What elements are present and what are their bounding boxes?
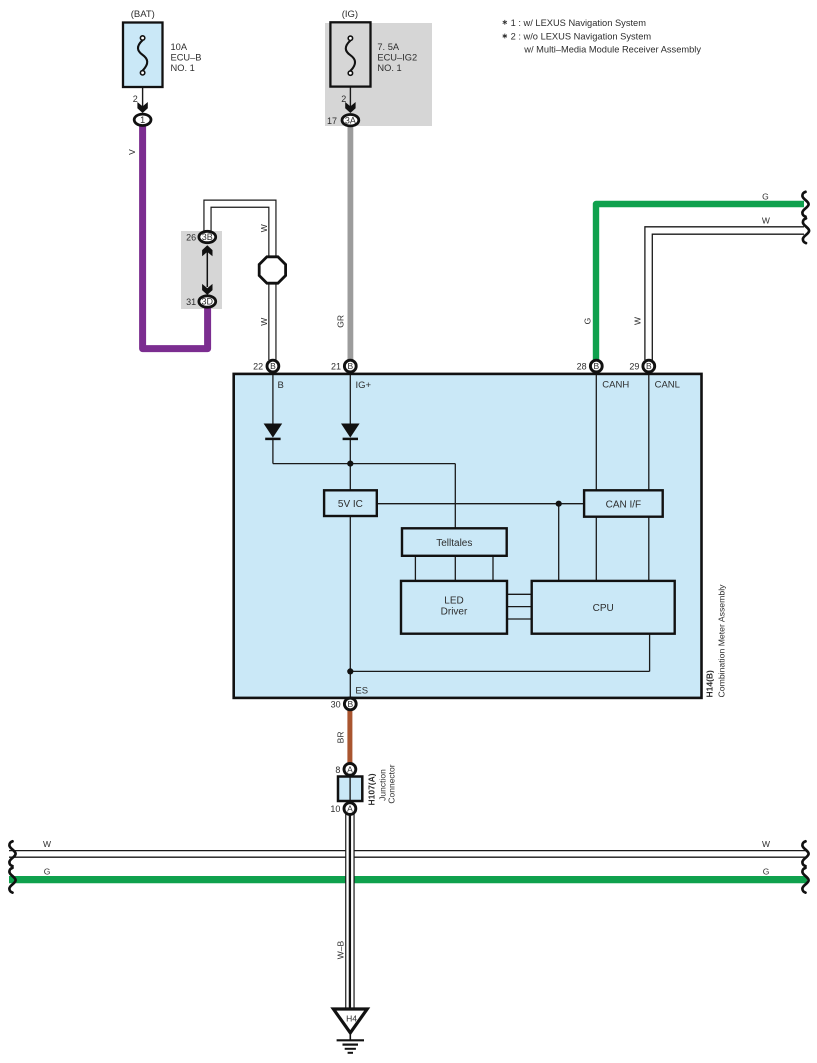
svg-text:NO. 1: NO. 1 xyxy=(377,63,401,73)
svg-text:10: 10 xyxy=(330,804,340,814)
svg-text:Driver: Driver xyxy=(441,607,468,618)
svg-text:Combination Meter Assembly: Combination Meter Assembly xyxy=(717,584,727,698)
svg-text:B: B xyxy=(646,361,652,371)
svg-text:G: G xyxy=(763,866,770,876)
svg-text:w/ Multi–Media Module Receiver: w/ Multi–Media Module Receiver Assembly xyxy=(523,44,701,54)
svg-text:H4: H4 xyxy=(346,1014,357,1024)
svg-text:CAN I/F: CAN I/F xyxy=(606,499,642,510)
svg-text:W: W xyxy=(633,317,643,325)
svg-text:W–B: W–B xyxy=(336,940,346,959)
svg-text:H107(A): H107(A) xyxy=(367,773,377,805)
svg-text:CANH: CANH xyxy=(602,380,629,391)
svg-text:B: B xyxy=(347,361,353,371)
svg-text:W: W xyxy=(259,224,269,232)
svg-text:(BAT): (BAT) xyxy=(131,9,155,20)
svg-text:LED: LED xyxy=(444,596,463,607)
svg-text:30: 30 xyxy=(331,700,341,710)
svg-text:G: G xyxy=(762,191,769,201)
svg-text:CANL: CANL xyxy=(655,380,680,391)
svg-text:A: A xyxy=(347,804,353,814)
svg-text:2 : w/o LEXUS Navigation Syste: 2 : w/o LEXUS Navigation System xyxy=(511,32,652,42)
svg-text:W: W xyxy=(762,216,770,226)
svg-text:3B: 3B xyxy=(202,232,213,242)
svg-text:31: 31 xyxy=(186,297,196,307)
svg-text:Connector: Connector xyxy=(386,764,396,803)
svg-text:H14(B): H14(B) xyxy=(704,670,714,698)
svg-text:W: W xyxy=(259,318,269,326)
svg-text:1: 1 xyxy=(140,115,145,125)
svg-text:CPU: CPU xyxy=(593,603,614,614)
svg-text:ES: ES xyxy=(355,686,368,697)
svg-text:A: A xyxy=(347,764,353,774)
svg-text:5V IC: 5V IC xyxy=(338,499,363,510)
svg-text:8: 8 xyxy=(335,765,340,775)
svg-text:3A: 3A xyxy=(345,115,356,125)
svg-text:7. 5A: 7. 5A xyxy=(377,42,400,52)
svg-text:3D: 3D xyxy=(202,297,214,307)
svg-text:21: 21 xyxy=(331,362,341,372)
svg-text:V: V xyxy=(127,149,137,155)
svg-text:22: 22 xyxy=(253,362,263,372)
svg-text:ECU–IG2: ECU–IG2 xyxy=(377,53,417,63)
svg-text:Telltales: Telltales xyxy=(436,538,472,549)
svg-text:26: 26 xyxy=(186,233,196,243)
svg-text:29: 29 xyxy=(629,362,639,372)
svg-text:ECU–B: ECU–B xyxy=(171,53,202,63)
svg-text:GR: GR xyxy=(336,315,346,328)
svg-text:2: 2 xyxy=(133,94,138,104)
svg-text:B: B xyxy=(347,699,353,709)
svg-text:IG+: IG+ xyxy=(356,380,372,391)
svg-text:B: B xyxy=(593,361,599,371)
svg-text:G: G xyxy=(583,318,593,325)
svg-text:1 : w/ LEXUS Navigation System: 1 : w/ LEXUS Navigation System xyxy=(511,18,647,28)
svg-text:W: W xyxy=(762,839,770,849)
svg-text:10A: 10A xyxy=(171,42,188,52)
svg-text:28: 28 xyxy=(577,362,587,372)
svg-text:W: W xyxy=(43,839,51,849)
svg-text:NO. 1: NO. 1 xyxy=(171,63,195,73)
svg-text:G: G xyxy=(44,866,51,876)
svg-text:B: B xyxy=(270,361,276,371)
svg-text:B: B xyxy=(278,380,284,391)
svg-text:(IG): (IG) xyxy=(342,9,358,20)
svg-text:BR: BR xyxy=(335,731,345,743)
svg-text:17: 17 xyxy=(327,116,337,126)
svg-text:2: 2 xyxy=(341,94,346,104)
